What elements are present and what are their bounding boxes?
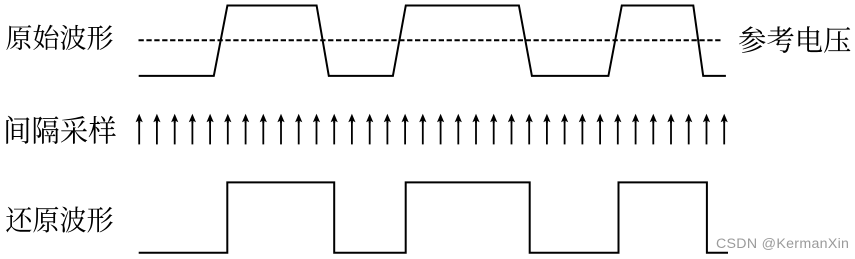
- svg-text:CSDN @KermanXin: CSDN @KermanXin: [716, 236, 849, 252]
- restored waveform trace: [139, 182, 728, 252]
- label: restored waveform (还原波形): [6, 206, 113, 232]
- original waveform trace: [139, 6, 726, 76]
- label: interval sampling (间隔采样): [6, 116, 116, 144]
- reference voltage dashed line: [139, 39, 724, 41]
- label: original waveform (原始波形): [6, 25, 112, 51]
- label: reference voltage (参考电压): [739, 26, 850, 53]
- sampling arrows row: [136, 114, 728, 145]
